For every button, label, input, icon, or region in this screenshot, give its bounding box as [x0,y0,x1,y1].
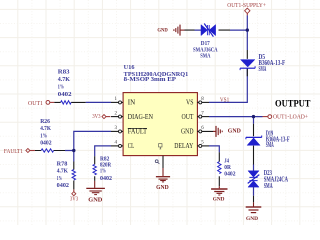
pad pin 9 stub [162,156,164,168]
ground pad pin9 [156,168,170,182]
svg-text:1%: 1% [100,168,106,174]
svg-text:0402: 0402 [58,92,72,98]
svg-text:1%: 1% [40,133,47,139]
R82 labels [100,157,112,182]
svg-text:GND: GND [181,128,194,136]
junction supply/D17 [246,28,249,31]
svg-text:8-MSOP 3mm EP: 8-MSOP 3mm EP [124,77,177,83]
svg-text:GND: GND [88,196,103,203]
svg-text:R83: R83 [58,70,70,76]
wire D23 to ground [253,187,255,196]
svg-text:1%: 1% [57,176,62,182]
D19 labels [266,131,290,150]
svg-text:0402: 0402 [40,140,51,146]
svg-text:DELAY: DELAY [174,142,193,150]
svg-text:R26: R26 [40,119,50,125]
svg-text:CL: CL [128,142,134,150]
U16 designator and type labels [124,65,189,83]
svg-text:SMA: SMA [266,142,274,149]
svg-text:GND: GND [156,184,169,191]
svg-text:0402: 0402 [224,172,235,178]
svg-text:3V3: 3V3 [92,114,100,120]
svg-text:VS1: VS1 [220,97,229,103]
svg-text:SMA: SMA [200,53,210,60]
svg-text:0402: 0402 [57,183,69,189]
svg-text:OUT: OUT [182,113,195,121]
svg-text:IN: IN [128,99,135,107]
svg-text:3V3: 3V3 [70,197,78,203]
svg-text:4.7K: 4.7K [40,126,51,132]
resistor R82 [93,156,96,181]
ground pin6 [213,126,222,137]
ground near D17 [174,25,185,36]
svg-text:VS: VS [186,99,194,107]
wire OUT1 to pin1 [86,101,111,103]
pin stubs left [111,102,123,145]
pin bubbles [119,101,202,147]
diode D19 [246,124,262,171]
svg-text:DIAG-EN: DIAG-EN [128,113,153,121]
diode D5 [240,50,255,76]
svg-text:OUTPUT: OUTPUT [275,98,311,108]
D17 labels [193,40,218,59]
ground D23 [246,202,262,212]
ground R82 [86,181,105,195]
svg-text:1%: 1% [58,84,64,90]
junction FAULT node [72,149,75,152]
svg-text:OUT1-SUPPLY+: OUT1-SUPPLY+ [227,2,266,9]
junction OUT node [252,115,255,118]
svg-text:GND: GND [213,196,225,202]
ground J4 [211,186,227,195]
pin numbers [115,97,205,146]
D5 labels [259,54,286,73]
IC U16 body [123,93,197,156]
resistor R78 [72,162,75,190]
D23 labels [264,170,288,190]
resistor R83 [54,101,85,104]
wire OUT net [209,117,263,124]
svg-text:GND: GND [246,216,258,222]
wire CL net [95,146,111,156]
svg-text:R78: R78 [57,162,68,168]
svg-text:4.7K: 4.7K [57,169,69,175]
wire FAULT net [65,131,111,161]
pin stubs right [197,102,213,145]
R83 labels [58,70,72,98]
svg-text:GND: GND [228,128,241,134]
svg-text:SMA: SMA [264,183,273,190]
port OUT1-LOAD+ [263,114,309,120]
port OUT1 [28,101,54,107]
resistor R26 [35,149,65,152]
svg-text:U16: U16 [124,65,135,71]
svg-text:J4: J4 [224,158,229,164]
svg-text:SMA: SMA [259,66,267,73]
pin 9 sideways digit [155,160,159,164]
svg-text:0402: 0402 [100,176,112,182]
svg-text:0R: 0R [224,165,231,171]
svg-text:GND: GND [157,28,167,34]
diode D17 TVS [185,24,248,37]
svg-text:FAULT: FAULT [128,128,148,136]
J4 labels [224,158,235,177]
svg-text:OUT1-LOAD+: OUT1-LOAD+ [273,114,309,120]
svg-text:4.7K: 4.7K [58,77,71,83]
resistor J4 [218,152,221,186]
port OUT1-SUPPLY+ [227,2,266,16]
port 3V3 pin2 [92,114,110,120]
R26 labels [40,119,51,147]
port 3V3 bottom [70,189,78,202]
port FAULT1 [4,148,35,154]
diode D23 TVS [248,171,260,187]
svg-text:FAULT1: FAULT1 [4,149,23,155]
thermal pad glyph [159,144,162,149]
svg-text:OUT1: OUT1 [28,101,43,107]
R78 labels [57,162,69,189]
wire supply vertical [209,15,247,102]
wire DELAY net [209,146,219,152]
